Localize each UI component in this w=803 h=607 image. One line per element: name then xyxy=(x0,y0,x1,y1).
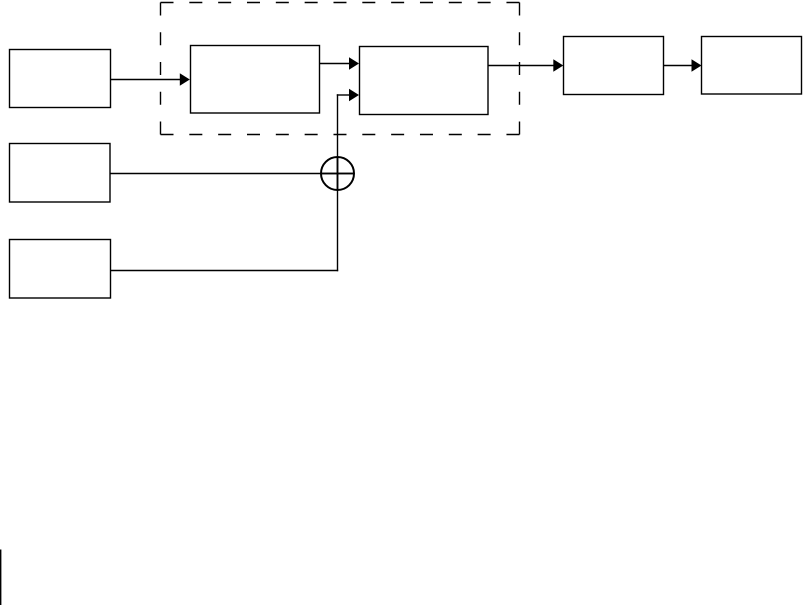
XOR cross horizontal stroke xyxy=(321,173,354,175)
block B (middle-left box) xyxy=(10,144,111,203)
arrowhead into block G xyxy=(692,59,702,71)
wire E to F xyxy=(488,65,554,67)
wire F to G xyxy=(664,65,693,67)
page border fragment at bottom-left edge xyxy=(0,550,2,606)
arrowhead into block E upper input xyxy=(349,57,359,69)
block D (first box inside dashed enclosure) xyxy=(191,46,320,114)
wire C to XOR junction (horizontal segment) xyxy=(111,270,339,272)
wire D to E xyxy=(320,63,350,65)
dashed enclosure left edge xyxy=(160,3,162,135)
wire A to D xyxy=(111,79,181,81)
arrowhead into block E lower input xyxy=(349,89,359,101)
wire B to XOR junction xyxy=(110,173,354,175)
dashed enclosure top edge xyxy=(161,2,520,4)
XOR summing junction circle xyxy=(321,157,354,190)
arrowhead into block D xyxy=(180,73,190,85)
block F xyxy=(564,37,664,95)
block A (top-left input box) xyxy=(10,50,111,108)
block E (second box inside dashed enclosure) xyxy=(360,47,489,115)
wire XOR output to block E lower input xyxy=(337,94,350,96)
XOR cross vertical stroke xyxy=(337,157,339,190)
arrowhead into block F xyxy=(553,59,563,71)
block G (rightmost box) xyxy=(702,37,802,95)
dashed enclosure right edge xyxy=(519,3,521,135)
wire C to XOR junction (vertical riser through junction up to output corner) xyxy=(337,94,339,271)
dashed enclosure bottom edge xyxy=(161,134,520,136)
block C (bottom-left box) xyxy=(10,240,111,299)
